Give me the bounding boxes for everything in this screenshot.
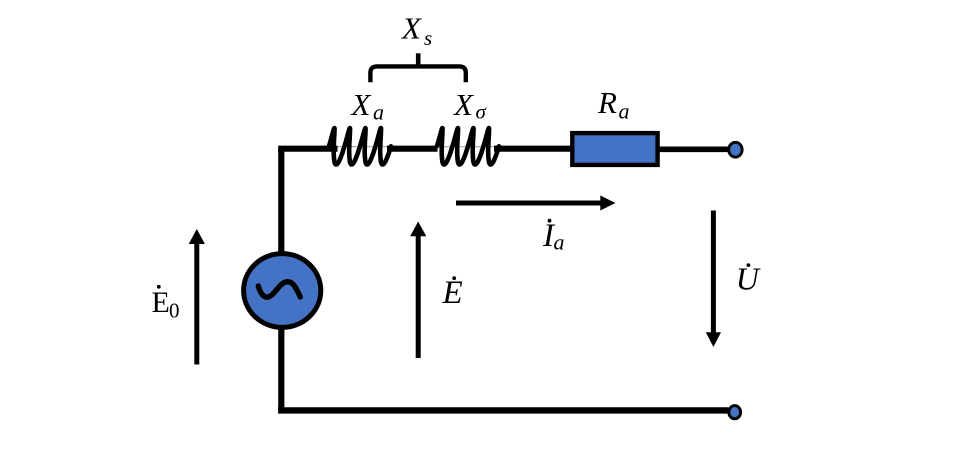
svg-text:s: s	[424, 26, 432, 50]
svg-text:a: a	[554, 230, 565, 255]
inductor Xa coil	[329, 128, 391, 164]
svg-text:E: E	[152, 286, 170, 319]
wire top-left segment	[281, 149, 337, 152]
label Ia dot	[548, 219, 552, 223]
brace center tick	[416, 53, 421, 66]
label E0 dot	[157, 285, 161, 289]
svg-text:a: a	[619, 99, 630, 124]
terminal bottom-right	[729, 406, 741, 419]
ac source sine wave	[258, 282, 300, 297]
terminal top-right	[729, 142, 742, 157]
wire left vertical	[278, 148, 284, 410]
svg-text:X: X	[452, 87, 474, 122]
svg-text:σ: σ	[476, 100, 488, 124]
svg-text:R: R	[597, 85, 617, 120]
svg-text:0: 0	[169, 299, 180, 323]
svg-text:X: X	[400, 11, 422, 46]
svg-text:U: U	[736, 261, 761, 297]
inductor Xsigma coil	[437, 128, 499, 164]
svg-text:E: E	[442, 275, 463, 311]
wire coil2 to resistor	[494, 146, 573, 152]
svg-text:X: X	[350, 87, 372, 122]
wire hairline behind coils	[337, 146, 573, 148]
svg-text:a: a	[373, 100, 384, 125]
wire resistor to top terminal	[658, 147, 729, 153]
arrow U (down)	[711, 211, 716, 335]
arrow E (up)	[416, 235, 421, 359]
arrow E0 (up)	[194, 242, 199, 365]
ac source V1 circle	[244, 254, 321, 328]
label U dot	[747, 263, 751, 267]
resistor Ra body	[572, 133, 657, 165]
wire between coils	[387, 146, 438, 152]
label E dot	[452, 276, 456, 280]
wire bottom	[281, 407, 728, 410]
brace Xs overbrace	[370, 66, 465, 82]
arrow Ia (right)	[456, 201, 602, 206]
